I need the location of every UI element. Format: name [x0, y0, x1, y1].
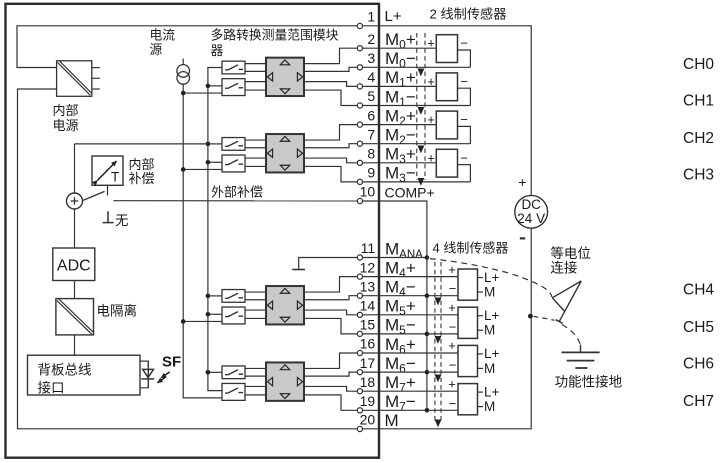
- svg-text:15: 15: [360, 317, 376, 333]
- svg-text:+: +: [448, 338, 456, 353]
- svg-text:CH2: CH2: [683, 130, 714, 147]
- svg-text:内部: 内部: [129, 157, 155, 172]
- svg-text:4: 4: [367, 69, 375, 85]
- svg-text:14: 14: [360, 298, 376, 314]
- svg-text:CH5: CH5: [683, 319, 714, 336]
- svg-text:+: +: [518, 174, 526, 190]
- svg-text:M: M: [484, 399, 495, 414]
- svg-text:L+: L+: [484, 346, 500, 361]
- svg-text:−: −: [449, 281, 457, 296]
- svg-text:T: T: [111, 170, 119, 185]
- svg-text:M: M: [484, 285, 495, 300]
- svg-text:M: M: [484, 323, 495, 338]
- svg-text:CH3: CH3: [683, 166, 714, 183]
- svg-text:多路转换测量范围模块: 多路转换测量范围模块: [211, 27, 339, 42]
- svg-text:−: −: [460, 36, 468, 51]
- svg-text:无: 无: [115, 213, 129, 228]
- svg-text:−: −: [460, 74, 468, 89]
- svg-text:内部: 内部: [53, 103, 79, 118]
- svg-text:2 线制传感器: 2 线制传感器: [430, 6, 507, 22]
- svg-text:CH1: CH1: [683, 93, 714, 110]
- svg-text:CH7: CH7: [683, 393, 714, 410]
- svg-text:20: 20: [360, 412, 376, 428]
- svg-text:等电位: 等电位: [550, 245, 591, 261]
- svg-text:L+: L+: [484, 308, 500, 323]
- svg-text:M: M: [385, 411, 399, 430]
- svg-text:电隔离: 电隔离: [97, 303, 138, 319]
- svg-text:电源: 电源: [53, 118, 79, 133]
- svg-text:外部补偿: 外部补偿: [211, 185, 263, 200]
- svg-text:5: 5: [367, 88, 375, 104]
- svg-text:+: +: [427, 112, 435, 127]
- svg-text:L+: L+: [484, 270, 500, 285]
- svg-text:+: +: [448, 376, 456, 391]
- svg-text:接口: 接口: [38, 380, 65, 396]
- svg-text:12: 12: [360, 259, 376, 275]
- svg-text:17: 17: [360, 355, 376, 371]
- svg-text:补偿: 补偿: [129, 171, 155, 186]
- svg-text:+: +: [448, 300, 456, 315]
- svg-text:16: 16: [360, 336, 376, 352]
- svg-text:器: 器: [211, 43, 224, 58]
- svg-text:24 V: 24 V: [517, 211, 545, 226]
- svg-text:11: 11: [361, 240, 376, 256]
- svg-text:+: +: [448, 262, 456, 277]
- svg-text:L+: L+: [385, 8, 402, 25]
- svg-text:源: 源: [150, 42, 163, 57]
- svg-text:−: −: [449, 319, 457, 334]
- svg-text:L+: L+: [484, 384, 500, 399]
- svg-text:7: 7: [367, 126, 375, 142]
- svg-text:13: 13: [360, 278, 376, 294]
- svg-text:19: 19: [360, 393, 376, 409]
- svg-text:−: −: [460, 112, 468, 127]
- svg-text:背板总线: 背板总线: [38, 363, 92, 378]
- svg-text:4 线制传感器: 4 线制传感器: [433, 241, 509, 256]
- svg-text:SF: SF: [162, 354, 181, 371]
- svg-text:CH4: CH4: [683, 282, 714, 299]
- svg-text:CH6: CH6: [683, 355, 714, 372]
- svg-text:18: 18: [360, 374, 376, 390]
- svg-text:M: M: [484, 361, 495, 376]
- svg-text:CH0: CH0: [683, 56, 714, 73]
- svg-text:+: +: [427, 74, 435, 89]
- svg-text:电流: 电流: [150, 28, 176, 43]
- svg-text:2: 2: [367, 31, 375, 47]
- svg-text:9: 9: [367, 165, 375, 181]
- svg-text:−: −: [449, 358, 457, 373]
- svg-text:3: 3: [367, 50, 375, 66]
- svg-text:10: 10: [360, 184, 376, 200]
- svg-text:8: 8: [367, 146, 375, 162]
- svg-text:6: 6: [367, 107, 375, 123]
- svg-text:DC: DC: [521, 197, 541, 212]
- svg-text:ADC: ADC: [57, 258, 91, 275]
- svg-text:COMP+: COMP+: [385, 184, 435, 200]
- svg-text:+: +: [427, 150, 435, 165]
- svg-text:连接: 连接: [550, 260, 577, 276]
- svg-text:+: +: [427, 36, 435, 51]
- svg-text:1: 1: [367, 9, 375, 25]
- svg-text:−: −: [449, 396, 457, 411]
- svg-text:−: −: [460, 150, 468, 165]
- svg-text:功能性接地: 功能性接地: [555, 374, 623, 390]
